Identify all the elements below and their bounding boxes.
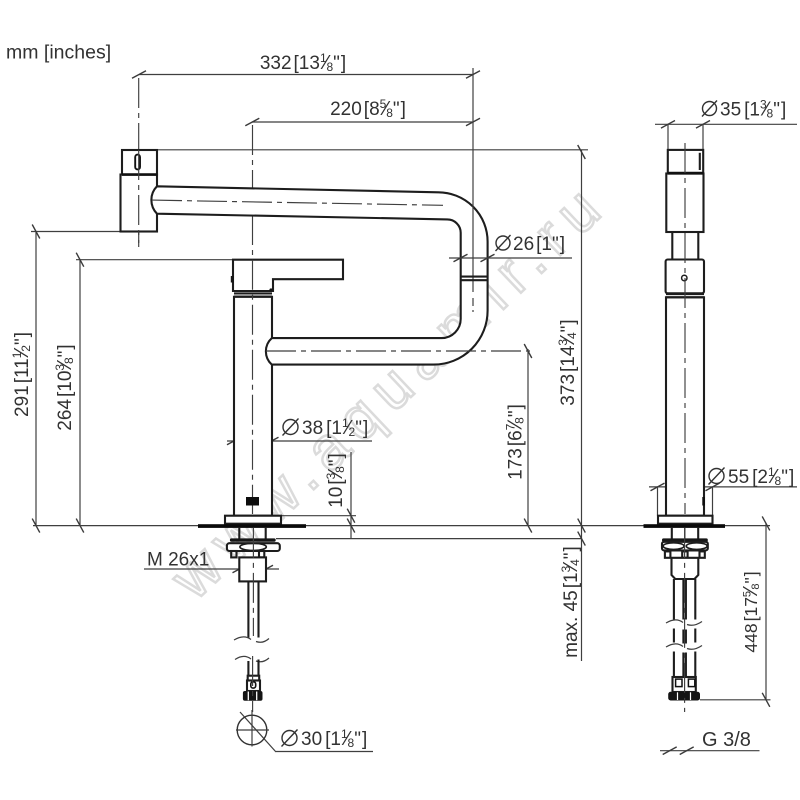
svg-text:373[143⁄4"]: 373[143⁄4"] — [556, 319, 579, 405]
O26 leader — [449, 257, 572, 259]
O38 leader — [227, 440, 372, 442]
watermark www.aquamir.ru — [157, 168, 620, 612]
spout top level line (373 extension) — [157, 149, 588, 151]
svg-text:220[85⁄8"]: 220[85⁄8"] — [330, 97, 406, 120]
handle block + lever — [233, 260, 343, 291]
G3/8 fitting body — [673, 677, 696, 692]
svg-text:55[21⁄8"]: 55[21⁄8"] — [728, 465, 794, 488]
side flange — [658, 516, 713, 524]
label O38 — [283, 419, 299, 436]
threaded shank — [239, 557, 266, 581]
side column — [666, 297, 704, 515]
spout cap slot — [135, 155, 140, 170]
spout pipe (U-shape) — [151, 186, 487, 364]
spout cap joint — [122, 173, 157, 176]
column centerline overlay — [252, 260, 254, 514]
svg-text:35[13⁄8"]: 35[13⁄8"] — [720, 98, 786, 121]
side cap slot edge — [699, 153, 701, 170]
column label mark — [246, 497, 259, 506]
label O55 — [709, 468, 725, 485]
supply pipe lower — [248, 660, 258, 676]
label O26 — [496, 235, 511, 251]
side washer dark band — [662, 538, 708, 541]
svg-text:173[67⁄8"]: 173[67⁄8"] — [504, 404, 527, 480]
nut lugs — [231, 551, 236, 557]
hose nut (dark) — [243, 691, 263, 701]
svg-text:26[1"]: 26[1"] — [513, 234, 565, 255]
hose fitting body — [247, 681, 260, 692]
side set screw — [682, 275, 687, 280]
dim 373 line — [581, 150, 583, 661]
svg-text:264[103⁄8"]: 264[103⁄8"] — [53, 344, 76, 430]
svg-text:448[175⁄8"]: 448[175⁄8"] — [740, 571, 762, 652]
dim 173 line — [527, 349, 529, 526]
side neck tube — [671, 232, 673, 260]
max45 second reference line — [276, 538, 582, 540]
side centerline — [684, 143, 686, 514]
side nut with lobes — [662, 542, 708, 551]
G3/8 nut (dark) — [668, 692, 700, 701]
dim 264 line — [79, 260, 81, 526]
column centerline — [252, 125, 254, 514]
side lower centerline — [684, 528, 686, 712]
side break marks — [666, 620, 702, 625]
dim 332 line — [139, 74, 473, 76]
spout cap — [122, 150, 157, 175]
mounting nut — [227, 543, 280, 551]
dim 448 bottom extension — [700, 699, 771, 701]
countertop thick segment (front) — [198, 524, 306, 528]
dim 10 line — [350, 452, 352, 539]
M26x1 leader — [144, 568, 279, 570]
label O30 — [282, 730, 298, 747]
label O35 — [702, 101, 717, 117]
side connector block — [672, 558, 699, 579]
handle joint double line — [234, 292, 272, 294]
spout pipe centerline — [152, 200, 443, 205]
side spout body — [666, 174, 703, 233]
column body — [234, 297, 272, 516]
O30 leader diagonal + underline — [240, 712, 276, 752]
twin supply pipes lower — [674, 652, 695, 678]
side cap joint — [668, 172, 703, 175]
hose collar — [248, 676, 260, 681]
dim 291 line — [35, 232, 37, 527]
svg-text:291[111⁄2"]: 291[111⁄2"] — [10, 332, 33, 417]
dim 291 extension — [31, 231, 121, 233]
lower tube centerline + 173 extension — [266, 350, 530, 352]
svg-text:G 3/8: G 3/8 — [702, 729, 751, 751]
side spout cap — [668, 150, 703, 173]
side collar block — [666, 260, 704, 294]
bend axis extension line — [472, 68, 474, 292]
flange top extension for dim 10 — [281, 515, 356, 517]
base flange — [225, 516, 281, 524]
countertop reference line — [33, 525, 770, 527]
dim O55 line + extensions — [649, 486, 797, 488]
G3/8 leader — [660, 750, 760, 752]
svg-text:38[11⁄2"]: 38[11⁄2"] — [302, 416, 368, 439]
spout centerline — [138, 78, 140, 247]
dim 448 line — [765, 523, 767, 700]
pipe swivel joint lines — [461, 276, 488, 278]
dim 220 line — [252, 121, 473, 123]
side nut lugs — [665, 551, 671, 557]
svg-text:332[131⁄8"]: 332[131⁄8"] — [260, 51, 346, 74]
shank upper — [238, 528, 240, 539]
svg-text:30[11⁄8"]: 30[11⁄8"] — [301, 727, 367, 750]
O30 circle — [237, 715, 267, 745]
twin supply pipes mid — [674, 629, 695, 644]
twin supply pipes upper — [674, 579, 695, 620]
countertop thick segment (side) — [644, 524, 726, 528]
dim 264 extension — [76, 259, 233, 261]
dim O35 line + extensions — [655, 123, 797, 125]
side collar joint double line — [666, 293, 704, 295]
handle detail marks — [231, 276, 234, 283]
pipe break marks (front) — [234, 637, 269, 642]
side edge mark — [702, 497, 705, 506]
supply pipe upper — [247, 581, 249, 637]
side shank — [671, 528, 673, 539]
washer dark band — [230, 538, 276, 541]
svg-text:M 26x1: M 26x1 — [147, 550, 209, 571]
spout body — [121, 175, 158, 232]
svg-text:10[3⁄8"]: 10[3⁄8"] — [324, 453, 347, 508]
svg-text:mm [inches]: mm [inches] — [6, 42, 111, 64]
spout centerline overlay — [138, 150, 140, 247]
